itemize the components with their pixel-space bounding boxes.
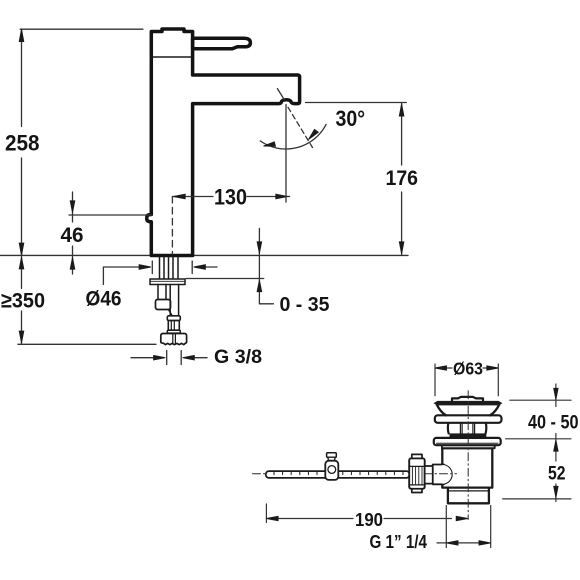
handle joint line [151,56,192,58]
counter underside line (0-35 thickness) [186,278,264,280]
drain vertical centerline [467,391,469,520]
dimension 130 [172,196,289,198]
side port nut [409,458,425,489]
dimension O63 [435,364,498,396]
slot dark band [450,433,487,438]
svg-text:0 - 35: 0 - 35 [280,294,330,316]
svg-text:Ø63: Ø63 [453,359,483,379]
svg-text:G 1” 1/4: G 1” 1/4 [370,531,428,552]
rod clamp screw [327,453,337,457]
dimension 176 [401,103,403,256]
svg-text:40 - 50: 40 - 50 [528,412,579,434]
dimension 258 [21,29,23,255]
svg-text:258: 258 [5,131,40,156]
dimension 258 extension line (top) [20,28,143,30]
ring band [435,415,502,423]
dimension 46 [72,192,74,274]
svg-text:52: 52 [548,463,566,485]
svg-text:30°: 30° [336,106,366,131]
rod clamp body [325,461,338,480]
svg-text:46: 46 [61,224,84,247]
shank base collar [167,330,180,333]
dimension 46 extension line [69,214,152,216]
30 degree swivel: tilted axis line [277,89,284,100]
drain body [442,448,492,487]
lower flange [434,438,501,445]
svg-text:176: 176 [386,167,419,190]
>=350 bottom reference line [18,343,156,345]
flexible hose [158,285,166,300]
trumpet sides [437,405,499,416]
G3/8 thread section [168,321,179,331]
port weld arc [442,465,452,485]
dimension G 1" 1/4 [446,506,490,548]
faucet body outline (column + spout) [147,29,300,256]
rod hatch marks [274,472,403,475]
threaded shank tube [170,285,178,317]
tailpiece [448,488,489,504]
svg-text:130: 130 [214,185,247,210]
dimension 190 [265,504,267,523]
dimension 176 extension line [306,102,407,104]
cage mid body [448,423,487,434]
dimension O46 ticks [152,261,192,274]
svg-text:190: 190 [355,509,383,530]
body shoulder [442,445,495,448]
shank collar [167,316,180,321]
flange top band [433,401,502,406]
dimension G3/8 [131,357,207,359]
dimension 40-50 extension lines [503,400,571,499]
dimension 52 [555,484,557,502]
svg-text:Ø46: Ø46 [86,287,122,311]
mounting washer [150,279,185,285]
hose end block [156,300,171,310]
port neck [433,465,444,485]
30 degree arc [260,124,326,149]
shank and hose lines below deck [160,257,179,280]
svg-text:≥350: ≥350 [1,289,45,313]
130 dashed extension to base [171,197,173,255]
dimension >=350 [21,255,23,344]
faucet handle lever [193,38,251,49]
knurled supply nut [161,334,187,345]
deck / countertop line [0,254,408,256]
svg-text:G 3/8: G 3/8 [214,346,262,368]
outlet centerline [285,105,287,203]
port horizontal centerline [253,473,457,475]
pull rod [266,471,410,478]
dimension 40-50 [555,384,557,461]
port tube [425,466,433,484]
dimension O46 leader [103,267,217,285]
dimension 0-35 [259,228,273,303]
plug cap [452,397,483,401]
